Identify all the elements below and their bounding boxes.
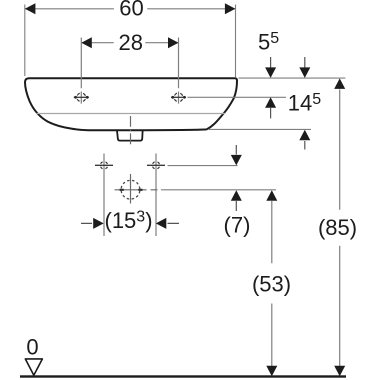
svg-text:28: 28 (119, 30, 143, 55)
drain level reference line (161, 189, 276, 191)
faucet hole right: dashed circle (174, 93, 183, 102)
basin outline (25, 78, 237, 130)
drain: dashed circle (121, 180, 140, 199)
dim 5.5: lower arrow (270, 108, 272, 119)
svg-text:(153): (153) (105, 208, 153, 233)
svg-text:60: 60 (119, 0, 143, 20)
svg-text:0: 0 (26, 335, 38, 360)
fixing hole left: dashed circle (100, 162, 107, 169)
dim 60: dimension line (25, 8, 235, 10)
faucet hole right: end dots (171, 96, 174, 99)
basin inner shelf line (37, 113, 226, 115)
fixing hole level reference line (168, 165, 238, 167)
dim 85: dimension line (339, 90, 341, 367)
dim 28: right arrow (168, 37, 179, 48)
faucet hole left: cross bar (74, 96, 89, 98)
faucet hole left: center vertical line (80, 38, 82, 104)
fixing hole right: vertical extension line (155, 154, 157, 237)
faucet hole right: cross bar (171, 96, 186, 98)
dim 28: left arrow (81, 37, 92, 48)
dim 7: lower arrow (235, 201, 237, 211)
basin bottom reference line (209, 128, 311, 130)
fixing hole right: cross bar (147, 164, 165, 166)
drain: centerline thick dashes at circle crossings (120, 189, 143, 191)
drain: horizontal center line (115, 189, 158, 191)
dim 60: right arrow (225, 3, 236, 14)
faucet hole left: end dots (74, 96, 77, 99)
dim 7: upper arrow (235, 145, 237, 155)
dim 14.5: lower arrow (304, 141, 306, 150)
dim 15.3: dimension line with arrows (81, 222, 179, 224)
fixing hole right: dashed circle (152, 162, 159, 169)
fixing hole left: cross bar (95, 164, 113, 166)
dim 28: dimension line (82, 42, 179, 44)
svg-text:(7): (7) (224, 213, 251, 238)
faucet hole right: center vertical line (178, 38, 180, 104)
dim 53: dimension line (271, 201, 273, 366)
rim level reference line (239, 77, 346, 79)
faucet hole left: dashed circle (77, 93, 86, 102)
svg-text:(53): (53) (252, 271, 291, 296)
drain: vertical center line (130, 116, 132, 204)
outlet fitting below basin (117, 130, 143, 141)
dim 60: left extension line (24, 5, 26, 77)
dim 60: right extension line (235, 5, 237, 78)
tap level reference line (188, 96, 287, 98)
floor line (20, 375, 346, 377)
dim 5.5: upper arrow (270, 57, 272, 68)
dim 60: left arrow (25, 3, 36, 14)
svg-text:(85): (85) (318, 215, 357, 240)
dim 14.5: upper arrow (304, 57, 306, 68)
datum triangle (25, 359, 42, 375)
fixing hole left: vertical extension line (103, 154, 105, 237)
